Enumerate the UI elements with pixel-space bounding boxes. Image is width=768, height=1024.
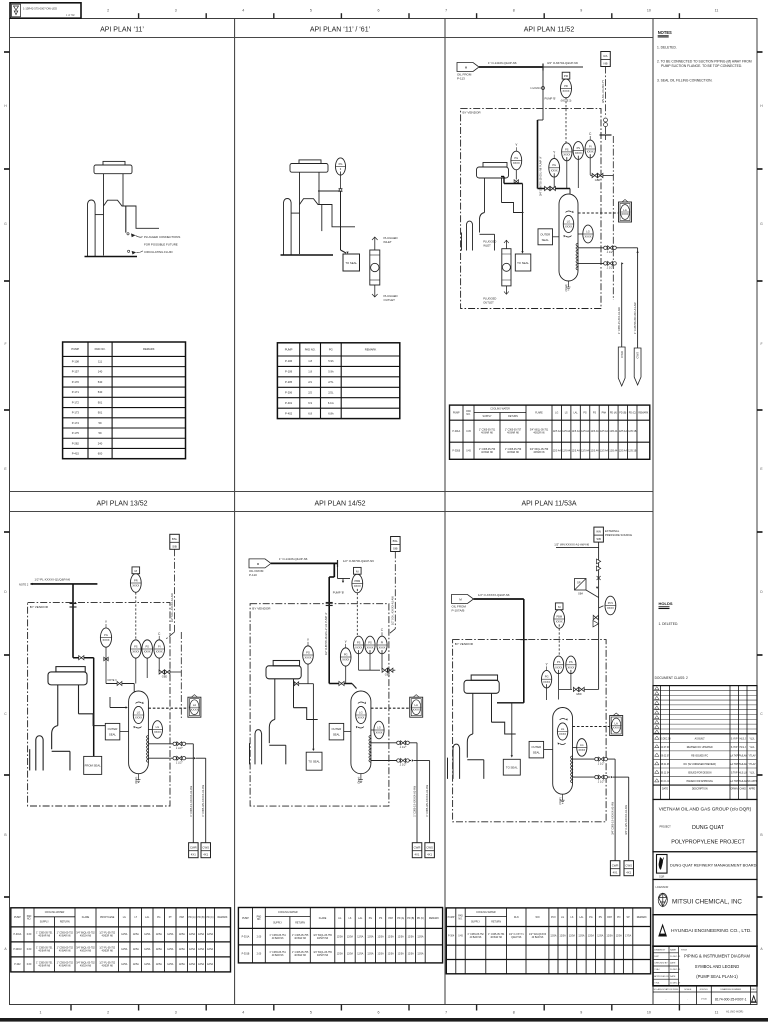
svg-text:AS BUILT: AS BUILT: [695, 737, 706, 740]
svg-text:12/5A: 12/5A: [207, 963, 214, 966]
svg-text:5.9h: 5.9h: [328, 370, 334, 374]
SP plate panel6: [575, 579, 587, 596]
svg-text:12/5 A4: 12/5 A4: [562, 450, 571, 453]
svg-text:REMARK: REMARK: [638, 411, 648, 414]
svg-text:XXXX: XXXX: [357, 716, 364, 720]
CW valve set1 panel6: [595, 757, 608, 765]
boundary tick panel4: [70, 603, 77, 605]
bubble PS panel4: [131, 640, 142, 658]
valve pair GBD panel6: [573, 687, 584, 696]
svg-text:12/5A: 12/5A: [133, 933, 140, 936]
svg-text:NOTE 3: NOTE 3: [107, 679, 117, 682]
svg-text:GBD: GBD: [162, 675, 168, 678]
by vendor label panel4: [29, 603, 53, 609]
utility box WN panel6: [594, 527, 604, 542]
bubble M panel4: [130, 567, 141, 592]
LA alarm panel5: [410, 695, 423, 718]
svg-text:APPD: APPD: [749, 788, 756, 791]
svg-text:12/5A: 12/5A: [144, 948, 151, 951]
svg-text:XXXX: XXXX: [513, 161, 520, 165]
bubble PS2 panel6: [566, 656, 576, 674]
svg-text:XXXX: XXXX: [575, 151, 582, 155]
utility box BSL panel5: [391, 537, 401, 552]
svg-text:CWR: CWR: [414, 845, 421, 849]
svg-text:XXXX: XXXX: [563, 153, 570, 157]
svg-text:4X1: 4X1: [415, 853, 420, 857]
svg-text:DRAWN BY: DRAWN BY: [654, 948, 666, 951]
CWS box panel5: [425, 843, 435, 858]
svg-text:3/4" O-66705-18-GBL-N6 PUMP ‘: 3/4" O-66705-18-GBL-N6 PUMP ‘A’: [540, 156, 543, 196]
bubble PS2 panel4: [142, 640, 153, 658]
instrument boundary dashdot right: [612, 136, 614, 300]
svg-text:LA.TKP: LA.TKP: [730, 780, 738, 783]
svg-text:PD (A): PD (A): [189, 916, 196, 919]
TO SEAL box panel2: [343, 254, 360, 271]
svg-text:PG: PG: [344, 652, 348, 656]
svg-text:04.07.09: 04.07.09: [661, 747, 671, 749]
svg-text:10.DEC.09: 10.DEC.09: [670, 969, 681, 971]
svg-text:2/2L: 2/2L: [328, 390, 334, 394]
capsule feed header panel4: [106, 683, 134, 685]
svg-text:DATE: DATE: [670, 962, 676, 965]
svg-text:P-401: P-401: [285, 401, 293, 405]
svg-text:12/5A: 12/5A: [144, 933, 151, 936]
wire outer seal panel5: [344, 730, 351, 732]
bubble PG2 panel5: [340, 640, 351, 666]
pump outline panel2: [284, 160, 356, 255]
svg-text:PG: PG: [157, 917, 161, 919]
svg-text:PROPYLENE: PROPYLENE: [100, 917, 115, 919]
CWR box panel6: [610, 861, 620, 876]
wire to TO SEAL panel6: [511, 703, 513, 756]
svg-text:12/5A: 12/5A: [156, 933, 163, 936]
DQR management board box: [653, 852, 757, 880]
left ruler ticks: [4, 52, 10, 897]
svg-text:PAH: PAH: [607, 916, 612, 919]
svg-text:4X1: 4X1: [203, 853, 208, 857]
svg-text:1" C365-1S-XXXXX-A1-AW: 1" C365-1S-XXXXX-A1-AW: [190, 785, 193, 816]
svg-text:F: F: [4, 342, 6, 346]
svg-text:SCALE: SCALE: [684, 988, 692, 991]
svg-text:12/5 A4: 12/5 A4: [581, 450, 590, 453]
svg-text:8: 8: [513, 9, 515, 13]
svg-text:P-301A: P-301A: [242, 935, 250, 938]
svg-text:59: 59: [99, 431, 102, 435]
wire to LG panel5: [371, 729, 374, 731]
svg-text:1" C365-05-751: 1" C365-05-751: [36, 963, 53, 965]
svg-text:6.8h: 6.8h: [328, 411, 334, 415]
svg-text:WN: WN: [596, 530, 601, 534]
wire main drop into vendor zone: [542, 97, 544, 120]
svg-text:12/5A: 12/5A: [179, 948, 186, 951]
CWS box panel4: [201, 843, 211, 858]
svg-text:DUNG QUAT: DUNG QUAT: [692, 825, 725, 831]
pump P panel6: [448, 675, 516, 779]
svg-text:2: 2: [107, 1011, 109, 1015]
svg-text:LS: LS: [571, 917, 574, 919]
svg-text:4X1: 4X1: [427, 853, 432, 857]
svg-text:12/5 A4: 12/5 A4: [591, 430, 600, 433]
svg-text:PAH: PAH: [602, 411, 607, 414]
svg-text:ISSUED FOR DESIGN: ISSUED FOR DESIGN: [688, 773, 712, 775]
svg-text:LS: LS: [565, 412, 568, 414]
cooling water line2 panel6: [573, 776, 611, 778]
svg-text:40/52R N6: 40/52R N6: [102, 936, 114, 938]
svg-text:PG: PG: [545, 675, 549, 679]
valve under PG panel4: [104, 657, 108, 661]
svg-text:1. DELETED.: 1. DELETED.: [657, 46, 677, 50]
svg-text:11: 11: [715, 9, 719, 13]
owner block text: [659, 807, 752, 846]
svg-text:P-113: P-113: [457, 76, 465, 80]
owner block box: [653, 800, 757, 852]
svg-text:DQR: DQR: [659, 877, 664, 879]
wire SP to WN line: [586, 590, 599, 598]
svg-text:XXXX: XXXX: [342, 658, 349, 662]
svg-text:XXXX: XXXX: [379, 646, 386, 650]
svg-text:12/5A: 12/5A: [198, 948, 205, 951]
panel1 table: [63, 342, 186, 459]
CWR box panel5: [412, 843, 422, 858]
svg-text:08.01.06: 08.01.06: [661, 764, 671, 766]
svg-text:0.60: 0.60: [27, 964, 32, 966]
svg-text:API PLAN 13/52: API PLAN 13/52: [97, 501, 148, 508]
svg-text:CWR: CWR: [190, 845, 197, 849]
drawing title text: [681, 950, 751, 980]
Hyundai logo: [658, 924, 667, 937]
svg-text:FROM SEAL: FROM SEAL: [85, 764, 102, 768]
svg-text:COOLING WATER: COOLING WATER: [476, 911, 496, 914]
svg-text:3/4" 66QL-05-759: 3/4" 66QL-05-759: [530, 449, 549, 451]
svg-text:PS: PS: [379, 918, 383, 920]
svg-text:PI: PI: [381, 640, 384, 644]
svg-text:XXXX: XXXX: [132, 650, 139, 654]
wire to TO SEAL panel5: [312, 684, 314, 750]
svg-text:XXXX: XXXX: [585, 235, 592, 239]
seal pot panel5: [351, 691, 371, 784]
svg-text:40 BAR N6: 40 BAR N6: [507, 451, 519, 454]
by vendor boundary panel6: [453, 640, 606, 822]
pennant CWR panel3: [618, 347, 625, 386]
svg-text:12/5A: 12/5A: [417, 953, 424, 956]
svg-text:40 BAR N6: 40 BAR N6: [38, 935, 50, 938]
svg-text:PG: PG: [104, 633, 108, 637]
svg-text:YLJL: YLJL: [749, 747, 755, 749]
svg-text:12/5 A4: 12/5 A4: [600, 430, 609, 433]
svg-text:1/2"-PL-05-752: 1/2"-PL-05-752: [99, 963, 115, 965]
svg-text:12/5A: 12/5A: [408, 953, 415, 956]
svg-text:1. DELETED.: 1. DELETED.: [659, 622, 679, 626]
outer seal box panel3: [538, 229, 553, 245]
wire pump discharge to seal line: [318, 190, 341, 192]
bottom ruler ticks: [71, 1005, 679, 1011]
DQR logo: [657, 855, 668, 879]
svg-text:PAH: PAH: [388, 917, 393, 920]
svg-text:4X1: 4X1: [626, 871, 631, 875]
svg-text:PBM: PBM: [354, 579, 360, 583]
svg-text:3. SEAL OIL FILLING CONNECTION: 3. SEAL OIL FILLING CONNECTION.: [657, 79, 713, 83]
plugged connection lower: [128, 250, 143, 254]
svg-text:1" C365-05-752: 1" C365-05-752: [467, 934, 484, 936]
svg-text:XXXX: XXXX: [543, 680, 550, 684]
svg-text:140: 140: [98, 370, 103, 374]
branch wire panel5: [337, 563, 339, 578]
svg-text:PG: PG: [339, 162, 343, 166]
svg-text:LG: LG: [580, 743, 583, 747]
svg-text:12/5 A4: 12/5 A4: [609, 430, 618, 433]
top ruler ticks: [71, 13, 679, 18]
by vendor boundary panel5: [250, 604, 389, 806]
svg-text:Q&UP N6: Q&UP N6: [511, 937, 522, 939]
svg-text:XXXX: XXXX: [567, 665, 574, 669]
external pressure source text: [605, 529, 632, 537]
svg-text:12/5A: 12/5A: [550, 935, 557, 938]
svg-text:WV-SXL-XX-30X-YY: WV-SXL-XX-30X-YY: [602, 80, 605, 103]
svg-text:1/2" WN-XXXXX-A1-AW-N6: 1/2" WN-XXXXX-A1-AW-N6: [554, 542, 589, 546]
svg-text:3/4" 66QL-05-755: 3/4" 66QL-05-755: [313, 935, 332, 937]
svg-text:INLET: INLET: [384, 240, 392, 244]
junction flange tick: [542, 64, 544, 71]
plugged aux chamber panel3: [502, 240, 511, 294]
svg-text:PG: PG: [329, 347, 333, 351]
svg-text:1 1/2": 1 1/2": [400, 745, 408, 749]
svg-text:TO SEAL: TO SEAL: [517, 261, 529, 265]
svg-text:API PLAN 14/52: API PLAN 14/52: [315, 501, 366, 508]
svg-text:BSL: BSL: [172, 537, 178, 541]
svg-text:09.02.07: 09.02.07: [661, 756, 671, 758]
svg-text:40 BAR N6: 40 BAR N6: [532, 936, 544, 939]
svg-text:SEAL: SEAL: [533, 751, 541, 755]
svg-text:LG: LG: [555, 412, 558, 414]
svg-text:PS: PS: [134, 644, 138, 648]
svg-text:APPROVED BY: APPROVED BY: [654, 975, 670, 978]
header wire panel3 heavy: [538, 188, 571, 190]
valve on suction panel4: [79, 656, 84, 660]
svg-text:CWR: CWR: [620, 351, 624, 358]
valve on feed panel5: [339, 681, 344, 685]
svg-text:0.45: 0.45: [458, 936, 463, 938]
svg-text:OUTLET: OUTLET: [384, 298, 396, 302]
alarm dashed wire panel3: [578, 212, 619, 214]
svg-text:PG: PG: [369, 918, 373, 920]
svg-text:API PLAN ‘11’ / ‘61’: API PLAN ‘11’ / ‘61’: [310, 27, 371, 34]
svg-text:12/5A: 12/5A: [133, 948, 140, 951]
svg-text:PUMP: PUMP: [453, 412, 460, 414]
bubble LG right panel5: [374, 721, 384, 739]
check valves panel6: [597, 559, 601, 580]
svg-text:P-109: P-109: [285, 370, 293, 374]
svg-text:SEAL: SEAL: [333, 733, 341, 737]
svg-text:12/5A: 12/5A: [578, 935, 585, 938]
svg-text:12/5A: 12/5A: [616, 935, 623, 938]
svg-text:P-172: P-172: [72, 400, 80, 404]
svg-text:PS: PS: [577, 146, 581, 150]
svg-text:12/5A: 12/5A: [189, 948, 196, 951]
bubble PBM panel5: [352, 567, 363, 592]
svg-text:40 BAR N6: 40 BAR N6: [38, 965, 50, 968]
svg-text:12/5A: 12/5A: [417, 935, 424, 938]
svg-text:PCV: PCV: [551, 917, 556, 919]
svg-text:0.45: 0.45: [466, 431, 471, 433]
svg-text:40 BAR N6: 40 BAR N6: [470, 936, 482, 939]
svg-text:901: 901: [98, 411, 103, 415]
wire outer seal panel4: [120, 730, 129, 732]
svg-text:2/1: 2/1: [308, 380, 312, 384]
svg-text:10.DEC.09: 10.DEC.09: [670, 956, 681, 958]
suction header panel4: [31, 583, 33, 585]
svg-text:PS: PS: [569, 660, 573, 664]
svg-text:1" C365-05-754: 1" C365-05-754: [488, 934, 505, 936]
pump outline panel1: [88, 161, 160, 256]
svg-text:3/4" C-WS-XXXXX-A1-AW: 3/4" C-WS-XXXXX-A1-AW: [625, 805, 628, 835]
relief bubble panel3: [561, 72, 572, 98]
svg-text:XXXX: XXXX: [556, 620, 563, 624]
svg-text:12/5 A4: 12/5 A4: [562, 430, 571, 433]
svg-text:EXTERNAL: EXTERNAL: [605, 529, 620, 533]
svg-text:ISSUED FOR APPROVAL: ISSUED FOR APPROVAL: [686, 780, 713, 783]
svg-text:12/5A: 12/5A: [357, 953, 364, 956]
svg-text:VIETNAM OIL AND GAS GROUP (c/o: VIETNAM OIL AND GAS GROUP (c/o DQR): [659, 807, 752, 812]
svg-text:LA.TKP: LA.TKP: [730, 755, 738, 758]
svg-text:XXXX: XXXX: [135, 716, 142, 720]
suction to pump panel6: [497, 702, 524, 704]
svg-text:API PLAN ‘11’: API PLAN ‘11’: [100, 27, 144, 34]
svg-text:LG: LG: [338, 918, 341, 920]
panel5 table: [238, 908, 442, 963]
svg-text:12/5A: 12/5A: [357, 935, 364, 938]
auxiliary seal chamber panel2: [370, 237, 380, 297]
svg-text:40/52H N6: 40/52H N6: [80, 966, 92, 968]
svg-text:PD (A): PD (A): [610, 411, 617, 414]
svg-text:XXXX: XXXX: [559, 732, 566, 736]
svg-text:12/5A: 12/5A: [337, 935, 344, 938]
svg-text:SUPPLY: SUPPLY: [471, 921, 480, 923]
svg-text:FLARE: FLARE: [319, 917, 327, 920]
svg-text:P-170: P-170: [72, 380, 80, 384]
by vendor boundary panel4: [28, 603, 170, 806]
suction drop panel4: [72, 584, 74, 658]
svg-text:12/5A: 12/5A: [156, 963, 163, 966]
svg-text:3/4" C365-1S-XXXXX-A1-AW: 3/4" C365-1S-XXXXX-A1-AW: [612, 801, 615, 834]
LG bubble panel4: [133, 702, 143, 729]
svg-text:12/5 A4: 12/5 A4: [591, 450, 600, 453]
svg-text:HLS.J: HLS.J: [740, 738, 746, 740]
svg-text:FLARE: FLARE: [82, 916, 90, 919]
svg-text:POLYPROPYLENE PROJECT: POLYPROPYLENE PROJECT: [671, 840, 745, 846]
svg-text:NB: NB: [604, 62, 608, 66]
svg-text:1 1/2": 1 1/2": [598, 761, 606, 765]
CW valve set2 panel6: [595, 775, 608, 783]
CW valve set 2 panel3: [604, 261, 617, 269]
svg-text:XXXX: XXXX: [587, 150, 594, 154]
svg-text:DRAWING NUMBER: DRAWING NUMBER: [721, 988, 742, 991]
bubble PS panel6: [554, 656, 564, 674]
notes text: [657, 46, 752, 83]
pennant CWS panel3: [634, 348, 641, 385]
seal pot panel6: [553, 708, 573, 805]
instrument dashdot drop panel4: [174, 549, 176, 632]
top ruler numbers: [107, 9, 718, 13]
svg-text:OUTLET: OUTLET: [483, 300, 494, 304]
svg-text:12/5A: 12/5A: [179, 963, 186, 966]
wire outer seal to capsule: [553, 236, 560, 238]
svg-text:XXXX: XXXX: [367, 646, 374, 650]
svg-text:1" C365-05-751: 1" C365-05-751: [269, 952, 286, 954]
svg-text:P-301A: P-301A: [452, 430, 460, 433]
svg-text:40 BAR N6: 40 BAR N6: [481, 451, 493, 454]
svg-text:12/5 A4: 12/5 A4: [553, 450, 562, 453]
svg-text:SUPPLY: SUPPLY: [40, 922, 49, 924]
CW riser2 panel5: [429, 761, 431, 843]
svg-text:PAD: PAD: [458, 915, 463, 918]
svg-text:3: 3: [175, 1011, 177, 1015]
bubble PI panel5: [377, 628, 387, 654]
svg-text:1" C365-WS-XXXXX-A1-AW: 1" C365-WS-XXXXX-A1-AW: [426, 784, 429, 816]
svg-text:30.11.04: 30.11.04: [661, 773, 670, 775]
svg-text:BY VENDOR: BY VENDOR: [463, 111, 482, 115]
outer seal box panel4: [105, 723, 120, 740]
svg-text:7: 7: [445, 1011, 447, 1015]
bottom ruler numbers: [40, 1011, 719, 1015]
svg-text:REV.: REV.: [751, 989, 756, 991]
svg-text:INLET: INLET: [483, 243, 491, 247]
TO SEAL box panel5: [306, 752, 322, 770]
seal pot vessel panel3: [559, 194, 578, 291]
svg-text:1 1/2": 1 1/2": [176, 746, 184, 750]
reducer: [542, 87, 545, 90]
svg-text:PLUGGED: PLUGGED: [483, 297, 496, 301]
LA alarm panel3: [619, 200, 632, 223]
svg-text:P-110: P-110: [249, 573, 257, 577]
svg-text:1: 1: [40, 1011, 42, 1015]
svg-text:PUMP: PUMP: [285, 347, 293, 351]
svg-text:LG: LG: [137, 711, 140, 715]
svg-text:P-108: P-108: [72, 359, 80, 363]
svg-text:0.60: 0.60: [27, 934, 32, 936]
svg-text:40/52R N6: 40/52R N6: [102, 966, 114, 968]
svg-text:12/5A: 12/5A: [347, 935, 354, 938]
svg-text:SIB: SIB: [596, 537, 601, 541]
svg-text:12/5A: 12/5A: [133, 963, 140, 966]
svg-text:12/5A: 12/5A: [189, 933, 196, 936]
svg-text:6: 6: [378, 1011, 380, 1015]
bubble PG panel3: [511, 143, 522, 170]
svg-text:REMARK: REMARK: [637, 916, 647, 919]
svg-text:P-282: P-282: [72, 441, 80, 445]
svg-text:P-301M: P-301M: [13, 949, 21, 951]
svg-text:BSL: BSL: [393, 539, 399, 543]
svg-text:40 BAR N6: 40 BAR N6: [481, 431, 493, 434]
svg-text:2/2: 2/2: [308, 390, 312, 394]
svg-text:12/5A: 12/5A: [367, 953, 374, 956]
wire PSV dashed drop: [565, 97, 567, 146]
svg-text:PG: PG: [589, 917, 593, 919]
CW riser2 panel4: [205, 758, 207, 843]
svg-text:40 BAR N6: 40 BAR N6: [59, 935, 71, 938]
drop to FROM SEAL panel4: [93, 658, 95, 757]
LG bubble panel5: [356, 702, 366, 729]
svg-text:A1 (NO HOR): A1 (NO HOR): [726, 1010, 743, 1014]
CW riser1 panel6: [614, 759, 616, 861]
svg-text:3: 3: [175, 9, 177, 13]
svg-text:XXXX: XXXX: [578, 748, 585, 752]
svg-text:PS: PS: [557, 660, 561, 664]
svg-text:1" C365-05-752: 1" C365-05-752: [57, 933, 74, 935]
svg-text:P-174: P-174: [72, 421, 80, 425]
panel divider vertical 2: [444, 19, 446, 1005]
CWS box panel6: [624, 861, 634, 876]
bubble PG panel5: [303, 638, 314, 664]
